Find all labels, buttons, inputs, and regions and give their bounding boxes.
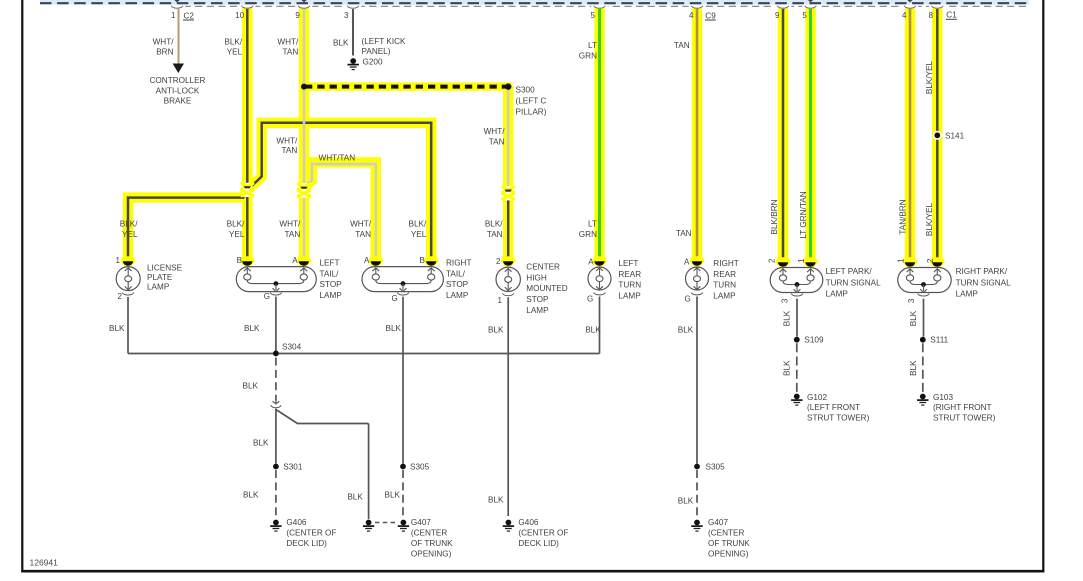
right rear turn lamp bbox=[686, 267, 709, 290]
svg-text:BLK: BLK bbox=[909, 310, 918, 326]
highlight BLK/YEL circuit bbox=[242, 8, 252, 258]
svg-text:BLK: BLK bbox=[783, 360, 792, 376]
wire WHT/TAN from S300 bbox=[507, 88, 509, 190]
svg-text:LT: LT bbox=[588, 41, 597, 50]
svg-text:BLK: BLK bbox=[585, 326, 601, 335]
svg-text:STRUT TOWER): STRUT TOWER) bbox=[807, 413, 870, 422]
svg-text:G102: G102 bbox=[807, 393, 827, 402]
svg-text:S141: S141 bbox=[945, 132, 965, 141]
svg-text:G: G bbox=[391, 294, 397, 303]
wire LT GRN pin5 bbox=[598, 9, 601, 258]
svg-text:BLK/YEL: BLK/YEL bbox=[925, 202, 934, 236]
svg-text:BLK: BLK bbox=[243, 491, 259, 500]
svg-text:LT: LT bbox=[588, 219, 597, 228]
svg-text:WHT/: WHT/ bbox=[279, 219, 301, 228]
svg-text:RIGHT PARK/: RIGHT PARK/ bbox=[956, 267, 1008, 276]
wire BLK right park pin3 to S111 bbox=[923, 299, 925, 337]
splice S109 bbox=[794, 337, 800, 343]
wire TAN C9 pin4 bbox=[696, 9, 699, 258]
wire WHT/TAN branch right tail bbox=[305, 164, 376, 258]
svg-text:TAIL/: TAIL/ bbox=[320, 269, 340, 278]
svg-text:2: 2 bbox=[926, 258, 935, 263]
svg-text:A: A bbox=[588, 258, 594, 267]
svg-text:BLK: BLK bbox=[243, 382, 259, 391]
svg-text:(LEFT C: (LEFT C bbox=[516, 96, 547, 105]
svg-text:BLK: BLK bbox=[909, 360, 918, 376]
svg-text:G: G bbox=[587, 294, 593, 303]
svg-text:LEFT: LEFT bbox=[618, 259, 638, 268]
wire BLK dashed S304 to deck connector bbox=[275, 358, 277, 401]
svg-text:9: 9 bbox=[775, 11, 780, 20]
svg-text:ANTI-LOCK: ANTI-LOCK bbox=[156, 86, 200, 95]
right park pin3 cup bbox=[918, 294, 930, 296]
wire BLK right turn G down to S305 bbox=[696, 297, 698, 464]
splice S141 bbox=[933, 131, 942, 140]
svg-text:TAN: TAN bbox=[674, 41, 690, 50]
svg-text:1: 1 bbox=[498, 296, 503, 305]
svg-text:GRN: GRN bbox=[579, 51, 597, 60]
svg-text:(CENTER OF: (CENTER OF bbox=[518, 529, 568, 538]
wire BLK/BRN pin9 bbox=[782, 9, 785, 259]
wire BLK dashed S305 to G407 bbox=[402, 470, 404, 516]
svg-text:TURN: TURN bbox=[618, 281, 641, 290]
svg-text:TAN: TAN bbox=[285, 230, 301, 239]
svg-text:G103: G103 bbox=[933, 393, 953, 402]
dashed link between grounds bbox=[375, 522, 397, 524]
svg-text:PANEL): PANEL) bbox=[362, 47, 391, 56]
svg-text:LICENSE: LICENSE bbox=[147, 264, 183, 273]
page border left bbox=[21, 0, 23, 572]
ground bus S304 line bbox=[128, 353, 600, 355]
svg-text:OPENING): OPENING) bbox=[411, 549, 452, 558]
svg-text:WHT/: WHT/ bbox=[484, 127, 506, 136]
svg-text:REAR: REAR bbox=[618, 270, 641, 279]
svg-text:4: 4 bbox=[902, 11, 907, 20]
svg-text:5: 5 bbox=[591, 11, 596, 20]
svg-text:DECK LID): DECK LID) bbox=[518, 539, 559, 548]
splice wire black dashes bbox=[305, 85, 506, 89]
svg-text:2: 2 bbox=[767, 258, 776, 263]
svg-text:BLK/: BLK/ bbox=[409, 219, 427, 228]
svg-text:G200: G200 bbox=[363, 57, 383, 66]
wire WHT/BRN C2 pin1 bbox=[178, 9, 180, 64]
svg-text:RIGHT: RIGHT bbox=[713, 259, 738, 268]
svg-text:STRUT TOWER): STRUT TOWER) bbox=[933, 413, 996, 422]
svg-text:3: 3 bbox=[344, 11, 349, 20]
svg-text:BLK: BLK bbox=[244, 324, 260, 333]
svg-text:YEL: YEL bbox=[411, 230, 427, 239]
svg-text:LAMP: LAMP bbox=[618, 292, 641, 301]
svg-text:126941: 126941 bbox=[30, 558, 59, 568]
splice S300 dot bbox=[505, 83, 511, 89]
svg-text:TURN SIGNAL: TURN SIGNAL bbox=[956, 278, 1011, 287]
left rear turn lamp bbox=[588, 267, 611, 290]
svg-text:C2: C2 bbox=[184, 11, 195, 20]
svg-text:(CENTER: (CENTER bbox=[708, 529, 744, 538]
svg-text:LAMP: LAMP bbox=[526, 306, 549, 315]
svg-text:S305: S305 bbox=[410, 462, 430, 471]
svg-text:BLK: BLK bbox=[347, 493, 363, 502]
svg-text:BLK: BLK bbox=[488, 496, 504, 505]
left tail/stop lamp bbox=[236, 267, 316, 292]
left park/turn signal lamp bbox=[770, 268, 823, 293]
inline connector S300 wire bbox=[503, 186, 514, 200]
wire BLK dashed S111 to G103 bbox=[922, 343, 924, 393]
svg-text:BLK: BLK bbox=[385, 491, 401, 500]
svg-text:LAMP: LAMP bbox=[446, 291, 469, 300]
svg-text:A: A bbox=[292, 256, 298, 265]
svg-text:9: 9 bbox=[295, 11, 300, 20]
svg-text:2: 2 bbox=[118, 292, 123, 301]
wire BLK left park pin3 to S109 bbox=[796, 299, 798, 337]
svg-text:8: 8 bbox=[929, 11, 934, 20]
inline connector BLK/YEL bbox=[242, 183, 253, 197]
svg-text:LEFT: LEFT bbox=[320, 258, 340, 267]
svg-text:TAN: TAN bbox=[355, 230, 371, 239]
svg-text:MOUNTED: MOUNTED bbox=[526, 284, 567, 293]
svg-text:HIGH: HIGH bbox=[526, 273, 547, 282]
svg-text:G406: G406 bbox=[286, 518, 306, 527]
svg-text:G407: G407 bbox=[411, 518, 431, 527]
svg-text:3: 3 bbox=[781, 298, 790, 303]
svg-text:BLK/: BLK/ bbox=[227, 219, 245, 228]
svg-text:5: 5 bbox=[802, 11, 807, 20]
svg-text:LAMP: LAMP bbox=[956, 290, 979, 299]
svg-text:STOP: STOP bbox=[526, 295, 549, 304]
svg-text:S111: S111 bbox=[930, 336, 948, 345]
wire BLK dashed S301 to G406 bbox=[275, 470, 277, 516]
svg-text:TAN/BRN: TAN/BRN bbox=[898, 199, 907, 234]
ground G102 bbox=[794, 394, 800, 400]
svg-text:4: 4 bbox=[689, 11, 694, 20]
svg-text:GRN: GRN bbox=[579, 230, 597, 239]
ground trunk pair left bbox=[366, 520, 372, 526]
continuation arrows bbox=[174, 0, 179, 2]
svg-text:S301: S301 bbox=[283, 462, 303, 471]
svg-text:DECK LID): DECK LID) bbox=[286, 539, 327, 548]
svg-text:S304: S304 bbox=[282, 343, 302, 352]
svg-text:WHT/: WHT/ bbox=[277, 38, 299, 47]
wire BLK left turn G down bbox=[599, 297, 601, 354]
svg-text:BLK: BLK bbox=[333, 39, 349, 48]
wire BLK center lamp to G406 bbox=[507, 297, 509, 516]
splice S305 bbox=[400, 464, 406, 470]
svg-text:(CENTER OF: (CENTER OF bbox=[286, 529, 336, 538]
highlight remaining vertical circuits bbox=[594, 8, 604, 258]
svg-text:TURN: TURN bbox=[713, 281, 736, 290]
svg-text:A: A bbox=[364, 256, 370, 265]
svg-text:CENTER: CENTER bbox=[526, 262, 560, 271]
left turn G cup bbox=[594, 293, 606, 295]
wire BLK/TAN bbox=[507, 199, 510, 257]
svg-text:S305: S305 bbox=[706, 463, 726, 472]
ground G200 bbox=[350, 58, 356, 64]
svg-text:S300: S300 bbox=[516, 85, 536, 94]
svg-text:WHT/: WHT/ bbox=[153, 38, 175, 47]
svg-text:10: 10 bbox=[235, 11, 244, 20]
svg-text:BLK: BLK bbox=[253, 439, 269, 448]
center high mounted stop lamp bbox=[496, 267, 520, 291]
svg-text:TAIL/: TAIL/ bbox=[446, 269, 466, 278]
svg-text:B: B bbox=[237, 256, 242, 265]
svg-text:(LEFT KICK: (LEFT KICK bbox=[362, 37, 407, 46]
svg-text:BLK/BRN: BLK/BRN bbox=[770, 199, 779, 234]
svg-text:LAMP: LAMP bbox=[826, 290, 849, 299]
svg-text:BLK/YEL: BLK/YEL bbox=[925, 60, 934, 94]
svg-text:PILLAR): PILLAR) bbox=[516, 108, 547, 117]
svg-text:REAR: REAR bbox=[713, 270, 736, 279]
svg-text:B: B bbox=[420, 256, 425, 265]
ground G407 trunk opening right bbox=[694, 520, 700, 526]
svg-text:CONTROLLER: CONTROLLER bbox=[150, 76, 206, 85]
license plate lamp bbox=[116, 267, 140, 291]
ground G103 bbox=[920, 394, 926, 400]
left park pin3 cup bbox=[791, 294, 803, 296]
svg-text:PLATE: PLATE bbox=[147, 273, 173, 282]
svg-text:1: 1 bbox=[116, 256, 121, 265]
wire BLK dashed S109 to G102 bbox=[796, 343, 798, 393]
lamp terminals bbox=[120, 256, 135, 266]
svg-text:OPENING): OPENING) bbox=[708, 549, 749, 558]
svg-text:LAMP: LAMP bbox=[320, 291, 343, 300]
svg-text:WHT/TAN: WHT/TAN bbox=[319, 153, 356, 162]
svg-text:BLK: BLK bbox=[678, 497, 694, 506]
svg-text:(LEFT FRONT: (LEFT FRONT bbox=[807, 403, 860, 412]
connector pin arcs bbox=[171, 6, 183, 8]
page border right bbox=[1042, 0, 1044, 572]
svg-text:OF TRUNK: OF TRUNK bbox=[411, 539, 453, 548]
svg-text:G406: G406 bbox=[518, 518, 538, 527]
svg-text:STOP: STOP bbox=[446, 280, 469, 289]
svg-text:WHT/: WHT/ bbox=[276, 137, 298, 146]
svg-text:C1: C1 bbox=[946, 11, 957, 20]
svg-text:TURN SIGNAL: TURN SIGNAL bbox=[826, 278, 881, 287]
wire BLK/YEL branch license bbox=[128, 191, 247, 258]
svg-text:BLK: BLK bbox=[109, 324, 125, 333]
svg-text:TAN: TAN bbox=[487, 230, 503, 239]
wire BLK/YEL pin10 bbox=[246, 9, 249, 186]
right tail/stop lamp bbox=[362, 267, 443, 292]
highlight splice wire to S300 bbox=[302, 82, 513, 90]
splice S111 bbox=[920, 337, 926, 343]
svg-text:TAN: TAN bbox=[282, 146, 298, 155]
wire LT GRN/TAN pin5 bbox=[809, 9, 812, 259]
inline connector deck lid bbox=[273, 401, 280, 403]
left tail G cup bbox=[270, 293, 282, 295]
right turn G cup bbox=[691, 293, 703, 295]
page top border blue dashed bbox=[40, 0, 1029, 5]
right park/turn signal lamp bbox=[898, 268, 951, 293]
splice S301 bbox=[273, 464, 279, 470]
svg-text:YEL: YEL bbox=[227, 48, 243, 57]
svg-text:STOP: STOP bbox=[320, 280, 343, 289]
svg-text:BLK/: BLK/ bbox=[224, 38, 242, 47]
svg-text:1: 1 bbox=[797, 258, 806, 263]
svg-text:(RIGHT FRONT: (RIGHT FRONT bbox=[933, 403, 992, 412]
svg-text:BLK: BLK bbox=[386, 324, 402, 333]
svg-text:RIGHT: RIGHT bbox=[446, 258, 471, 267]
highlight WHT/TAN circuit bbox=[299, 8, 309, 258]
svg-text:OF TRUNK: OF TRUNK bbox=[708, 539, 750, 548]
wire TAN/BRN pin4 bbox=[909, 9, 912, 259]
svg-text:BRAKE: BRAKE bbox=[164, 97, 192, 106]
svg-text:3: 3 bbox=[907, 298, 916, 303]
svg-text:LAMP: LAMP bbox=[713, 292, 736, 301]
svg-text:A: A bbox=[684, 258, 690, 267]
svg-text:1: 1 bbox=[897, 258, 906, 263]
svg-text:WHT/: WHT/ bbox=[350, 219, 372, 228]
ground G406 deck lid bbox=[273, 520, 279, 526]
wire BLK connector to S301 bbox=[275, 409, 277, 464]
page border bottom bbox=[21, 570, 1044, 573]
splice S305 right bbox=[694, 464, 700, 470]
splice S304 bbox=[273, 351, 279, 357]
svg-text:BLK/: BLK/ bbox=[120, 219, 138, 228]
svg-text:(CENTER: (CENTER bbox=[411, 529, 447, 538]
svg-text:TAN: TAN bbox=[283, 48, 299, 57]
wire BLK pin3 bbox=[352, 9, 354, 56]
center lamp pin1 cup bbox=[502, 293, 514, 295]
svg-text:S109: S109 bbox=[804, 336, 824, 345]
svg-text:BRN: BRN bbox=[156, 48, 173, 57]
wire BLK license lamp down bbox=[127, 297, 129, 354]
wire WHT/TAN pin9 bbox=[303, 9, 305, 187]
svg-text:G: G bbox=[264, 292, 270, 301]
svg-text:YEL: YEL bbox=[122, 230, 138, 239]
junction dot WHT/TAN bbox=[301, 84, 307, 90]
wire BLK left tail G down bbox=[275, 297, 277, 352]
svg-text:BLK/: BLK/ bbox=[485, 219, 503, 228]
wire BLK/YEL branch right tail bbox=[248, 123, 431, 258]
wire BLK/YEL C1 pin8 bbox=[936, 9, 939, 259]
arrow controller anti-lock brake bbox=[173, 64, 184, 74]
svg-text:LT GRN/TAN: LT GRN/TAN bbox=[799, 191, 808, 238]
svg-text:BLK: BLK bbox=[783, 310, 792, 326]
ground G406 center deck lid bbox=[506, 520, 512, 526]
svg-text:YEL: YEL bbox=[229, 230, 245, 239]
svg-text:G: G bbox=[684, 294, 690, 303]
license lamp pin2 cup bbox=[122, 293, 134, 295]
svg-text:TAN: TAN bbox=[676, 229, 692, 238]
svg-text:TAN: TAN bbox=[489, 137, 505, 146]
inline connector WHT/TAN bbox=[299, 183, 310, 197]
wire BLK right tail G down to S305 bbox=[402, 297, 404, 464]
wire BLK dashed to G407 right bbox=[696, 470, 698, 516]
svg-text:LAMP: LAMP bbox=[147, 282, 170, 291]
connector body dashed line bbox=[172, 5, 1027, 7]
right tail G cup bbox=[397, 293, 409, 295]
ground G407 trunk opening bbox=[401, 520, 407, 526]
svg-text:BLK: BLK bbox=[678, 326, 694, 335]
svg-text:LEFT PARK/: LEFT PARK/ bbox=[826, 267, 873, 276]
svg-text:C9: C9 bbox=[705, 11, 716, 20]
svg-text:1: 1 bbox=[171, 11, 176, 20]
wire BLK branch to trunk ground bbox=[276, 410, 369, 424]
svg-text:G407: G407 bbox=[708, 518, 728, 527]
svg-text:BLK: BLK bbox=[488, 326, 504, 335]
svg-text:2: 2 bbox=[496, 257, 501, 266]
